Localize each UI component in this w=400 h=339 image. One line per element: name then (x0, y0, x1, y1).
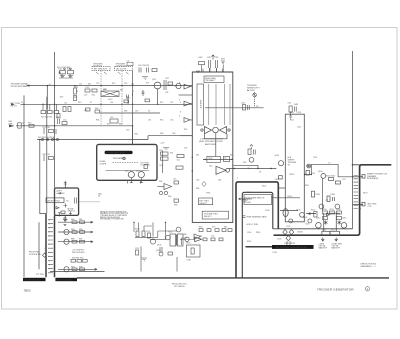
svg-text:R87: R87 (79, 239, 82, 241)
transistor right cluster (300, 212, 305, 217)
svg-text:S221: S221 (331, 229, 335, 231)
wire: vertical x=132.6 into trigger box (132, 126, 134, 145)
transistor symbols small (324, 221, 341, 225)
svg-text:R36: R36 (119, 124, 122, 126)
svg-text:S12: S12 (107, 124, 110, 126)
svg-text:337-1643-00: 337-1643-00 (174, 286, 185, 288)
resistor network below main line (74, 88, 120, 123)
potentiometer circle (123, 157, 126, 160)
tunnel diode box TD1 (207, 156, 220, 162)
black title pill (105, 151, 133, 154)
svg-text:E: E (49, 236, 50, 238)
board boundary vertical x=54.5 (54, 215, 56, 277)
summing node circle with plus (307, 164, 311, 168)
svg-text:Q57: Q57 (136, 171, 139, 173)
svg-text:P: P (49, 269, 50, 271)
black label bar 1 (23, 278, 46, 281)
transistor Q on row 232 (64, 229, 69, 234)
resistor cluster between boxes x157-192 (161, 148, 185, 170)
resistor (314, 212, 317, 218)
svg-text:R213: R213 (330, 209, 334, 211)
svg-text:C60: C60 (126, 130, 129, 132)
svg-text:AUTO: AUTO (57, 189, 63, 192)
circled T bottom of box (308, 219, 312, 223)
svg-text:K: K (49, 252, 50, 254)
wire: vertical from Q25 emitter (157, 89, 159, 104)
wire: ext trig input line y=104.3 (20, 103, 192, 105)
svg-text:T230: T230 (277, 238, 281, 240)
wire: line y=165.3 right of IC (233, 164, 258, 166)
bottom labels (24, 283, 355, 293)
svg-text:R86: R86 (71, 239, 74, 241)
marks under SW box transistors (130, 178, 143, 183)
svg-text:R242: R242 (247, 241, 251, 243)
dashed switch shaft x=101 (100, 71, 102, 125)
svg-text:MAIN INTF: MAIN INTF (319, 247, 327, 250)
thick right boundary (274, 165, 392, 235)
svg-text:R17: R17 (120, 90, 123, 92)
junction dots left pair (46, 104, 55, 141)
svg-text:FROM VERT AMP: FROM VERT AMP (11, 85, 29, 88)
main amplifier IC top label box (204, 76, 224, 83)
wire: row y=232 (58, 231, 93, 233)
junction dot left (204, 159, 205, 160)
connector ladder right (pins) (354, 176, 359, 209)
sprinkle labels mid column (160, 129, 187, 150)
svg-text:R70: R70 (199, 226, 202, 228)
svg-text:R15: R15 (74, 97, 77, 99)
svg-text:R164: R164 (331, 194, 335, 196)
marks below level box (126, 181, 142, 184)
svg-text:R60: R60 (135, 133, 138, 135)
down arrows (321, 238, 337, 242)
inner box labels (245, 197, 296, 245)
svg-text:C12: C12 (96, 83, 99, 85)
svg-text:Q160: Q160 (318, 171, 322, 173)
svg-text:Q68: Q68 (183, 234, 186, 236)
circled transistor left (316, 223, 322, 229)
svg-text:Q105: Q105 (275, 155, 279, 157)
svg-text:R38: R38 (160, 133, 163, 135)
wire: elbow x=258 (257, 165, 259, 168)
pulse gate switch thin box (244, 195, 272, 205)
svg-text:R19: R19 (78, 102, 81, 104)
gate output boxes (322, 231, 330, 235)
svg-text:C27: C27 (170, 102, 173, 104)
svg-text:11: 11 (360, 208, 362, 210)
svg-text:R16: R16 (92, 95, 95, 97)
transistor Q on row 241.7 (64, 239, 69, 244)
svg-text:C11: C11 (79, 83, 82, 85)
resistor row under IC (199, 229, 232, 241)
dashed switch shaft x=122 (121, 71, 123, 125)
svg-text:L138: L138 (187, 260, 191, 262)
resistor group row 241.7 (72, 240, 77, 243)
svg-text:C52: C52 (177, 159, 180, 161)
svg-text:6: 6 (180, 111, 181, 113)
components right of Q (164, 80, 173, 90)
black label bar 3 (bottom right) (272, 245, 314, 249)
diamond node under comparator (202, 182, 206, 187)
svg-text:TRIGGER SIGNAL: TRIGGER SIGNAL (11, 83, 30, 86)
svg-text:S10 COUPLING: S10 COUPLING (57, 67, 71, 69)
gate out labels (319, 209, 343, 250)
line input connector arrow (9, 125, 15, 128)
box with component right (187, 245, 201, 257)
svg-text:HOLD 1 RUN: HOLD 1 RUN (247, 224, 259, 226)
svg-text:1: 1 (360, 175, 361, 177)
extra tiny labels dense pass (183, 120, 346, 238)
transistor Q160 (321, 174, 326, 179)
svg-text:R18: R18 (95, 108, 98, 110)
svg-text:R50: R50 (160, 150, 163, 152)
IC box top edge emphasis (192, 71, 233, 73)
svg-text:SELECT: SELECT (200, 203, 209, 205)
junction dot right (231, 159, 232, 160)
dense marks input coupling cluster (59, 68, 74, 77)
svg-text:R112: R112 (306, 165, 310, 167)
B1 trigger mode box (55, 188, 79, 215)
svg-text:C19: C19 (110, 117, 113, 119)
svg-text:H: H (49, 244, 50, 246)
svg-text:C18: C18 (84, 110, 87, 112)
small box under summing node (306, 171, 310, 176)
amplifier triangle lower left (195, 237, 202, 242)
pin square sweep trig out (362, 175, 365, 179)
diode (327, 214, 330, 216)
wire: row y=222.2 (58, 221, 93, 223)
svg-text:R32 9.1K: R32 9.1K (43, 154, 51, 156)
wire: sweep trig out line y=176.8 (353, 176, 364, 178)
wire: vertical x=134 (133, 222, 135, 232)
svg-text:J2: J2 (21, 102, 23, 104)
diamond node from-trig (43, 253, 47, 257)
wires down to bus (141, 247, 177, 272)
svg-text:C29: C29 (135, 111, 138, 113)
ext trig select box (199, 198, 213, 205)
IC input pin triangles (184, 84, 190, 122)
wire: long vertical rail x=352.5 (352, 51, 354, 229)
resistor R163 vertical (312, 191, 315, 197)
svg-text:A TRIGGER LEVEL: A TRIGGER LEVEL (106, 152, 126, 155)
svg-text:C16: C16 (110, 102, 113, 104)
arrow trig'd (57, 192, 62, 194)
svg-text:TP45: TP45 (206, 192, 210, 194)
svg-text:D54: D54 (159, 181, 162, 183)
wire: aux trig line y=204.5 (353, 204, 364, 206)
svg-text:C108: C108 (265, 210, 269, 212)
ladder pin numbers left (44, 218, 51, 270)
svg-text:CR230: CR230 (297, 232, 303, 234)
sensitivity adjust trimmer (253, 93, 257, 97)
svg-text:SOURCE: SOURCE (93, 65, 103, 67)
svg-text:T155: T155 (305, 224, 309, 226)
svg-text:7B92: 7B92 (24, 289, 31, 293)
wire: y=199 (326, 212, 340, 214)
svg-text:R102: R102 (262, 186, 266, 188)
labels between boxes (159, 150, 180, 207)
svg-text:R72: R72 (212, 226, 215, 228)
svg-text:S240: S240 (247, 192, 251, 194)
svg-text:N: N (49, 264, 50, 266)
coupling parts on line input (29, 114, 67, 128)
svg-text:R90 R91 R92: R90 R91 R92 (72, 257, 83, 259)
small parts under B1 (58, 211, 72, 217)
svg-text:R152: R152 (311, 209, 315, 211)
svg-text:TRIGGER GENERATOR: TRIGGER GENERATOR (317, 287, 354, 291)
transistor near T1 (176, 227, 181, 232)
svg-text:C110: C110 (297, 112, 301, 114)
svg-text:R163: R163 (316, 194, 320, 196)
wire: into box y=188 (278, 187, 285, 189)
resistor R161 (329, 178, 334, 181)
wire: trigger signal input line y=85.6 (27, 85, 193, 87)
svg-text:Q130: Q130 (157, 245, 161, 247)
labels near IC internals (196, 154, 233, 194)
svg-text:R175: R175 (363, 192, 368, 194)
resistor group row 232 (72, 231, 77, 234)
wire: faint line from delay box right (79, 201, 100, 203)
cluster above comparator line x247-258 (248, 145, 255, 163)
wire: dashed sensitivity link x=254.6 (254, 92, 256, 108)
svg-text:2: 2 (360, 179, 361, 181)
50 ohm box (18, 123, 22, 128)
svg-text:FREE RUNNING GATE: FREE RUNNING GATE (247, 216, 268, 219)
wire: y=172.5 across (305, 174, 312, 176)
trigger level control box (rounded thick) (97, 144, 157, 180)
small box below Q105 (279, 176, 283, 179)
delay readout box inside B1 (46, 198, 64, 203)
circled transistor right (341, 223, 347, 229)
wire: row y=269.3 (58, 268, 97, 270)
svg-text:C112: C112 (297, 126, 301, 128)
note paragraph block (100, 210, 128, 220)
svg-text:R24: R24 (56, 117, 59, 119)
svg-text:R58: R58 (174, 205, 177, 207)
junction dots extra (100, 104, 312, 176)
svg-text:+15V: +15V (198, 57, 204, 59)
resistor R162 (336, 181, 341, 184)
svg-text:SELECT: SELECT (204, 216, 213, 218)
extra transistors transformer cluster (166, 235, 171, 240)
svg-text:TD110: TD110 (289, 174, 294, 176)
wire: vertical x=162.7 (162, 151, 164, 173)
junction dots along main lines (23, 85, 353, 223)
labels inner box bottom area (247, 232, 277, 254)
wire: vertical x=54.5 (54, 52, 56, 188)
wire: vertical x=165.5 (165, 222, 167, 240)
svg-text:Q212: Q212 (316, 217, 320, 219)
svg-text:9: 9 (360, 202, 361, 204)
wire: gate line y=213.6 (306, 213, 316, 215)
svg-text:7.5: 7.5 (328, 163, 331, 165)
cap C165 (333, 197, 335, 201)
svg-text:100: 100 (131, 83, 134, 85)
svg-text:F: F (49, 240, 50, 242)
extra specks right column (247, 157, 346, 233)
svg-text:P240: P240 (273, 252, 277, 254)
svg-text:7: 7 (360, 195, 361, 197)
bottom bus line (77, 277, 389, 279)
pin semicircles on inner box left edge (242, 200, 245, 218)
svg-text:C71: C71 (199, 236, 202, 238)
slope amp triangle (164, 184, 172, 190)
svg-text:R34: R34 (96, 119, 99, 121)
vertical text box inside IC (197, 84, 204, 125)
pulse transformer T1 (170, 234, 176, 246)
svg-text:R53: R53 (160, 165, 163, 167)
svg-text:TD110: TD110 (287, 196, 292, 198)
wire: vertical x=336.25 (335, 213, 337, 231)
board boundary vertical x=46 (45, 214, 47, 278)
wire: third input line y=125.8 (16, 125, 133, 127)
svg-text:A6 INTF BOARD: A6 INTF BOARD (57, 279, 73, 282)
pin square aux trig out (362, 202, 365, 206)
wire: vertical x=322.5 (322, 178, 324, 211)
wire: thick link to ladder (353, 164, 360, 166)
thick boundary segment into bar3 (246, 246, 273, 248)
svg-text:R25: R25 (160, 102, 163, 104)
svg-text:DELAY'D TRIG: DELAY'D TRIG (47, 199, 60, 202)
wire: row y=241.7 (58, 241, 93, 243)
wire: IC internal line y=135.7 stub (180, 135, 192, 137)
svg-text:R31 9.1K: R31 9.1K (43, 127, 51, 129)
ground cap on row 222 (63, 217, 67, 226)
resistor stack between lines left (63, 107, 71, 112)
left interface rows (58, 222, 97, 269)
svg-text:4: 4 (360, 185, 361, 187)
svg-text:R95: R95 (243, 162, 246, 164)
wire with arrow going left y=213.6 (308, 212, 316, 214)
svg-text:COUPLING: COUPLING (116, 65, 127, 67)
IC pin stubs (179, 87, 193, 120)
svg-text:10: 10 (360, 205, 362, 207)
svg-text:R13: R13 (60, 97, 63, 99)
wire: horizontal y=137.5 (37, 136, 192, 140)
svg-text:INTERFACE): INTERFACE) (367, 177, 379, 180)
resistors top (323, 211, 328, 214)
svg-text:TD45: TD45 (208, 158, 212, 160)
svg-text:C33: C33 (170, 119, 173, 121)
svg-text:S220: S220 (322, 229, 326, 231)
sprinkle labels top-left (76, 83, 173, 125)
svg-text:R156: R156 (303, 217, 307, 219)
ext trig connector symbol (11, 103, 15, 105)
svg-text:ADJUST: ADJUST (247, 89, 256, 92)
transistor Q near x=157 (154, 82, 161, 89)
input coupling network top-left (59, 71, 74, 79)
transistor circles lower left (185, 237, 189, 241)
medium line y=228.8 (273, 228, 353, 230)
svg-text:SLOPE: SLOPE (100, 163, 107, 165)
wire: tunnel diode line y=159.4 (203, 158, 233, 160)
svg-text:PULSE: PULSE (245, 202, 252, 204)
svg-text:47: 47 (90, 102, 92, 104)
svg-text:R12: R12 (112, 83, 115, 85)
cap marks near C60 (124, 93, 133, 103)
wire: line y=113 (100, 112, 160, 114)
wire: connector rail x=39 (38, 222, 40, 269)
svg-text:4: 4 (180, 102, 181, 104)
resistor row left (R21 R22 R23) (41, 104, 59, 113)
svg-text:R46: R46 (196, 188, 199, 190)
svg-text:R39: R39 (184, 129, 187, 131)
comparator triangle U1C (216, 166, 230, 174)
diode bridge diamonds (283, 230, 294, 246)
dashed switch wafer box 1 (92, 66, 110, 70)
svg-text:C114: C114 (313, 157, 317, 159)
svg-text:DL20: DL20 (108, 99, 112, 101)
wire: sensitivity line y=107.8 (205, 107, 264, 109)
svg-text:INT LINE EXT: INT LINE EXT (94, 69, 108, 71)
svg-text:C15: C15 (84, 95, 87, 97)
arrowhead trigger signal (27, 85, 30, 87)
svg-text:C23: C23 (63, 119, 66, 121)
ladder pin numbers right (360, 175, 362, 210)
dashed mode arrow (239, 198, 253, 200)
wire: TD drive line y=197.8 (272, 197, 301, 199)
wire to amp (180, 238, 195, 240)
svg-text:Q215: Q215 (342, 217, 346, 219)
labels bottom middle (135, 229, 191, 262)
svg-text:R83: R83 (71, 229, 74, 231)
svg-text:R115: R115 (305, 185, 309, 187)
wire: vertical x=65.3 above box (64, 181, 66, 188)
svg-text:R111: R111 (290, 120, 294, 122)
svg-text:AC DC HF: AC DC HF (117, 68, 128, 71)
resistor R164 vertical (327, 196, 330, 202)
caps above Q25 (139, 68, 157, 80)
IC box U1 outline (192, 72, 233, 222)
svg-text:R74: R74 (224, 226, 227, 228)
svg-text:SELECT: SELECT (68, 211, 77, 213)
svg-text:Q128: Q128 (156, 250, 160, 252)
svg-text:C106: C106 (275, 179, 279, 181)
tunnel diode amp triangle (194, 234, 201, 239)
svg-text:C154: C154 (286, 226, 290, 228)
wire: vertical x=24 (23, 95, 25, 277)
wire: long vertical x=46.8 (46, 97, 48, 214)
misc marks upper mid (127, 90, 150, 104)
svg-text:SOURCE SW: SOURCE SW (29, 254, 41, 256)
switch contact circles on y=139.5 (41, 138, 58, 140)
svg-text:R161 R162: R161 R162 (326, 175, 335, 177)
svg-text:DC LEVEL: DC LEVEL (141, 165, 152, 167)
svg-text:18: 18 (259, 172, 261, 174)
svg-text:A5 TRIGGER BD: A5 TRIGGER BD (25, 279, 41, 282)
svg-text:R35: R35 (160, 119, 163, 121)
resistor group row 222 (71, 221, 87, 271)
a/b trig select box (202, 211, 228, 219)
svg-text:C24 C26 R26: C24 C26 R26 (138, 65, 149, 67)
thick verticals to bottom bus (46, 214, 55, 278)
transistor Q165 (319, 204, 324, 209)
wire: holdoff line y=210 (280, 210, 298, 212)
svg-text:Q55: Q55 (125, 171, 128, 173)
left interface row labels (29, 219, 85, 268)
svg-text:R95: R95 (79, 266, 82, 268)
svg-text:8: 8 (360, 198, 361, 200)
wire: vertical x=47.3 (46, 86, 48, 110)
svg-text:TRIGGERING: TRIGGERING (113, 158, 126, 160)
svg-text:C73: C73 (211, 236, 214, 238)
resistor pair (136, 231, 139, 237)
svg-text:MAIN INTF: MAIN INTF (332, 247, 340, 250)
svg-text:C31: C31 (148, 119, 151, 121)
svg-text:R210: R210 (323, 209, 327, 211)
circled diagram number (365, 287, 369, 291)
svg-text:C42: C42 (209, 166, 212, 168)
